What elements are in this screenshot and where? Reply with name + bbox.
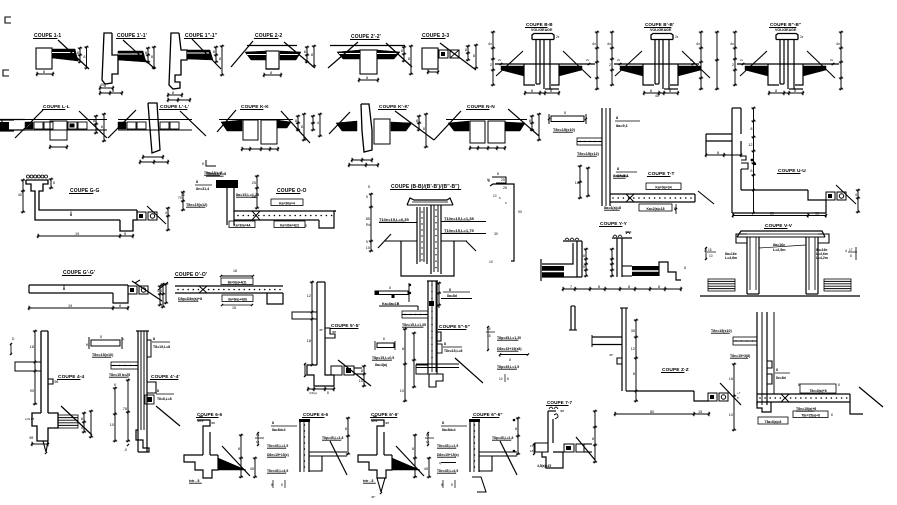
svg-text:8: 8: [794, 89, 796, 93]
svg-text:8: 8: [272, 421, 274, 425]
svg-text:85: 85: [366, 217, 370, 221]
svg-text:T8e=15(x10): T8e=15(x10): [92, 353, 114, 357]
svg-text:8: 8: [684, 266, 686, 270]
svg-text:8: 8: [531, 89, 533, 93]
svg-text:COUPE B'-B': COUPE B'-B': [645, 22, 674, 27]
svg-text:8: 8: [389, 286, 391, 290]
svg-text:8: 8: [850, 254, 852, 258]
svg-text:19: 19: [68, 304, 72, 308]
svg-text:8a=9(a)+4(2): 8a=9(a)+4(2): [228, 280, 247, 284]
svg-text:T8e=45,L=1,5: T8e=45,L=1,5: [437, 444, 458, 448]
svg-text:18: 18: [575, 181, 579, 185]
svg-text:25: 25: [252, 181, 256, 185]
svg-text:T8e=45,L=4,5: T8e=45,L=4,5: [267, 469, 288, 473]
svg-text:8: 8: [270, 71, 272, 75]
svg-text:8: 8: [412, 447, 414, 451]
svg-text:8a=8d: 8a=8d: [447, 294, 457, 298]
svg-text:8: 8: [628, 285, 630, 289]
svg-text:4: 4: [81, 426, 83, 430]
svg-text:T8p=45,L=1,8: T8p=45,L=1,8: [492, 436, 514, 440]
svg-text:Ka=2(a)=18: Ka=2(a)=18: [646, 207, 664, 211]
svg-text:8: 8: [451, 483, 453, 487]
svg-text:8: 8: [750, 127, 752, 131]
svg-text:T8e=15(a)+8: T8e=15(a)+8: [796, 407, 816, 411]
svg-text:8: 8: [151, 55, 153, 59]
svg-text:8: 8: [717, 151, 719, 155]
svg-text:Ka=30a=4(2): Ka=30a=4(2): [280, 223, 299, 227]
svg-text:40: 40: [18, 193, 22, 197]
svg-text:4: 4: [845, 249, 847, 253]
svg-text:Ka=30a=4A: Ka=30a=4A: [233, 223, 251, 227]
svg-text:tvtr - 8: tvtr - 8: [363, 479, 373, 483]
svg-text:90: 90: [30, 389, 34, 393]
svg-text:45°: 45°: [100, 83, 106, 87]
svg-text:8: 8: [444, 342, 446, 346]
svg-text:10: 10: [729, 413, 733, 417]
svg-text:4: 4: [317, 121, 319, 125]
svg-text:18: 18: [530, 449, 534, 453]
svg-text:8: 8: [465, 48, 467, 52]
svg-text:T10e=15,L=1,38: T10e=15,L=1,38: [444, 216, 474, 221]
svg-text:10: 10: [400, 389, 404, 393]
svg-text:8: 8: [77, 51, 79, 55]
svg-text:15: 15: [252, 195, 256, 199]
svg-text:8: 8: [633, 372, 635, 376]
svg-text:8: 8: [598, 285, 600, 289]
svg-text:8: 8: [304, 50, 306, 54]
svg-text:8: 8: [650, 89, 652, 93]
svg-text:8: 8: [119, 304, 121, 308]
svg-text:8a=8d=4: 8a=8d=4: [442, 428, 456, 432]
svg-text:COUPE 6"-6": COUPE 6"-6": [473, 412, 503, 417]
svg-text:10: 10: [709, 254, 713, 258]
svg-text:10: 10: [493, 194, 497, 198]
svg-text:45: 45: [250, 467, 254, 471]
svg-text:T8p=45,L=1,20: T8p=45,L=1,20: [497, 336, 521, 340]
svg-text:2: 2: [732, 63, 734, 67]
svg-text:8: 8: [442, 421, 444, 425]
svg-text:12: 12: [748, 143, 752, 147]
svg-text:8: 8: [213, 50, 215, 54]
svg-text:8: 8: [592, 437, 594, 441]
svg-text:8a=9(a)+4(8): 8a=9(a)+4(8): [228, 297, 247, 301]
svg-text:7: 7: [570, 285, 572, 289]
svg-text:8: 8: [616, 116, 618, 120]
svg-text:T8a=8(a)=8: T8a=8(a)=8: [765, 420, 782, 424]
svg-text:2x: 2x: [617, 58, 621, 62]
svg-text:18: 18: [487, 334, 491, 338]
svg-text:COUPE 7-7: COUPE 7-7: [547, 400, 572, 405]
svg-text:15: 15: [698, 410, 702, 414]
svg-text:8: 8: [81, 417, 83, 421]
svg-text:8: 8: [145, 51, 147, 55]
svg-text:2x: 2x: [830, 58, 834, 62]
svg-text:18: 18: [307, 339, 311, 343]
svg-text:VOLIGEAGE: VOLIGEAGE: [531, 28, 553, 32]
svg-text:8a=4(a): 8a=4(a): [375, 363, 387, 367]
svg-text:2x: 2x: [498, 58, 502, 62]
svg-text:8e=31,4: 8e=31,4: [196, 187, 209, 191]
svg-text:8: 8: [838, 383, 840, 387]
svg-text:8: 8: [93, 119, 95, 123]
svg-text:8: 8: [658, 285, 660, 289]
svg-text:T8p=45,L=1,8: T8p=45,L=1,8: [322, 436, 344, 440]
svg-text:45°: 45°: [609, 353, 614, 357]
svg-text:8: 8: [172, 91, 174, 95]
svg-text:8: 8: [583, 254, 585, 258]
svg-text:5: 5: [366, 195, 368, 199]
svg-text:8: 8: [281, 483, 283, 487]
svg-text:8: 8: [100, 335, 102, 339]
svg-text:8: 8: [617, 167, 619, 171]
svg-text:8: 8: [124, 232, 126, 236]
svg-text:2: 2: [609, 63, 611, 67]
svg-text:8: 8: [63, 285, 65, 289]
svg-text:8: 8: [509, 358, 511, 362]
svg-text:Φ8: Φ8: [54, 380, 59, 384]
svg-text:4: 4: [855, 193, 857, 197]
svg-text:T8e=15,L=8: T8e=15,L=8: [204, 171, 223, 175]
svg-text:8: 8: [449, 288, 451, 292]
svg-text:2x: 2x: [690, 58, 694, 62]
svg-text:D8e=15+15(x): D8e=15+15(x): [437, 453, 459, 457]
svg-text:8: 8: [361, 369, 363, 373]
svg-text:T8e=15,L=1,35: T8e=15,L=1,35: [402, 323, 426, 327]
svg-text:18: 18: [30, 345, 34, 349]
svg-text:Φ8: Φ8: [332, 330, 336, 334]
svg-text:10: 10: [366, 246, 370, 250]
svg-text:5: 5: [583, 265, 585, 269]
svg-text:8: 8: [750, 169, 752, 173]
svg-text:8a=8d=4: 8a=8d=4: [613, 174, 629, 178]
svg-text:T8e=15(x10): T8e=15(x10): [711, 329, 732, 333]
svg-text:4x: 4x: [836, 42, 840, 46]
svg-text:T8e=15+3(8): T8e=15+3(8): [730, 354, 750, 358]
svg-text:4x: 4x: [696, 42, 700, 46]
svg-text:T8p=15,L=0,5: T8p=15,L=0,5: [372, 356, 394, 360]
svg-text:Φ8Φ: Φ8Φ: [625, 230, 632, 234]
svg-text:4: 4: [77, 58, 79, 62]
svg-text:4x: 4x: [730, 42, 734, 46]
svg-text:8: 8: [408, 57, 410, 61]
svg-text:35: 35: [631, 329, 635, 333]
svg-text:COUPE B-B: COUPE B-B: [526, 22, 553, 27]
svg-text:4x: 4x: [607, 42, 611, 46]
svg-text:8: 8: [366, 76, 368, 80]
svg-text:2x: 2x: [675, 35, 679, 39]
svg-text:2x: 2x: [800, 35, 804, 39]
svg-text:8: 8: [238, 447, 240, 451]
svg-text:COUPE B"-B": COUPE B"-B": [770, 22, 801, 27]
svg-text:12: 12: [631, 347, 635, 351]
svg-text:8e=8d: 8e=8d: [776, 376, 786, 380]
svg-text:8: 8: [305, 224, 307, 228]
svg-text:T8e=45,L=4,5: T8e=45,L=4,5: [437, 469, 458, 473]
svg-text:4: 4: [165, 211, 167, 215]
svg-text:2x: 2x: [586, 58, 590, 62]
svg-text:4x: 4x: [592, 42, 596, 46]
svg-text:8: 8: [53, 181, 55, 185]
svg-text:T8e=15(x10): T8e=15(x10): [553, 128, 576, 132]
svg-text:8: 8: [112, 89, 114, 93]
svg-text:Rd: Rd: [366, 223, 370, 227]
svg-text:78: 78: [123, 407, 127, 411]
svg-text:L=4,2m: L=4,2m: [816, 256, 828, 260]
svg-text:25: 25: [501, 178, 505, 182]
svg-text:2x: 2x: [740, 58, 744, 62]
svg-text:8: 8: [515, 427, 517, 431]
svg-text:5: 5: [368, 185, 370, 189]
svg-text:8: 8: [669, 89, 671, 93]
svg-text:VOLIGEAGE: VOLIGEAGE: [650, 28, 672, 32]
svg-text:8: 8: [507, 377, 509, 381]
svg-text:T10e=15,L=1,75: T10e=15,L=1,75: [444, 228, 474, 233]
svg-text:4x: 4x: [488, 42, 492, 46]
svg-text:8: 8: [564, 111, 566, 115]
svg-text:4,5(a): 4,5(a): [309, 391, 317, 395]
svg-text:T8e=8(a)+8: T8e=8(a)+8: [809, 389, 826, 393]
svg-text:T8p=45,L=1,5: T8p=45,L=1,5: [497, 365, 519, 369]
svg-text:D8e=15+15(x8): D8e=15+15(x8): [497, 347, 522, 351]
svg-text:10: 10: [499, 377, 503, 381]
svg-text:8: 8: [70, 211, 72, 215]
svg-text:-5: -5: [124, 448, 127, 452]
svg-text:+7: +7: [737, 391, 741, 395]
svg-text:Φ8: Φ8: [211, 421, 215, 425]
svg-text:25: 25: [503, 186, 507, 190]
svg-text:L=2,5m: L=2,5m: [773, 248, 786, 252]
svg-text:8: 8: [423, 127, 425, 131]
svg-text:90: 90: [518, 210, 522, 214]
svg-text:8: 8: [776, 368, 778, 372]
svg-text:8: 8: [301, 125, 303, 129]
svg-text:8: 8: [83, 55, 85, 59]
svg-text:Φ8: Φ8: [385, 421, 389, 425]
svg-text:Ka=30a=4: Ka=30a=4: [279, 201, 295, 205]
svg-text:e=9,05: e=9,05: [25, 417, 35, 421]
svg-text:8: 8: [473, 54, 475, 58]
svg-text:T8e=15,L=8: T8e=15,L=8: [444, 349, 463, 353]
svg-text:8: 8: [383, 337, 385, 341]
svg-text:8: 8: [101, 125, 103, 129]
svg-text:Φ8: Φ8: [29, 436, 34, 440]
svg-text:2: 2: [490, 63, 492, 67]
svg-text:COUPE 6-6: COUPE 6-6: [303, 412, 328, 417]
svg-text:Ka=8a=1B: Ka=8a=1B: [382, 302, 400, 306]
svg-text:8: 8: [345, 427, 347, 431]
svg-text:8a=9,1: 8a=9,1: [616, 124, 629, 128]
svg-text:8: 8: [153, 337, 155, 341]
svg-text:8: 8: [311, 53, 313, 57]
svg-text:VOLIGEAGE: VOLIGEAGE: [775, 28, 797, 32]
svg-text:T8e=15(x12): T8e=15(x12): [186, 203, 208, 207]
svg-text:8: 8: [43, 70, 45, 74]
svg-text:8: 8: [831, 413, 833, 417]
svg-text:18: 18: [232, 306, 236, 310]
svg-text:10: 10: [359, 379, 363, 383]
svg-text:8: 8: [416, 119, 418, 123]
svg-text:L=4,6m: L=4,6m: [725, 256, 737, 260]
svg-text:10: 10: [489, 260, 493, 264]
svg-text:8: 8: [488, 179, 490, 183]
svg-text:45: 45: [424, 467, 428, 471]
svg-text:45°: 45°: [371, 495, 376, 499]
svg-text:8: 8: [550, 89, 552, 93]
svg-text:T8=15,L=8: T8=15,L=8: [153, 345, 170, 349]
svg-text:Φ8: Φ8: [560, 409, 564, 413]
svg-text:T10e=15,L=0,35: T10e=15,L=0,35: [379, 217, 409, 222]
svg-text:19: 19: [75, 232, 79, 236]
svg-text:4,5(a)=15: 4,5(a)=15: [537, 464, 551, 468]
svg-text:8: 8: [295, 119, 297, 123]
svg-text:T8e=15(a)+8: T8e=15(a)+8: [801, 413, 820, 417]
svg-text:8: 8: [219, 57, 221, 61]
svg-text:8: 8: [196, 180, 198, 184]
svg-text:4: 4: [160, 289, 162, 293]
svg-text:8: 8: [402, 347, 404, 351]
svg-text:8: 8: [157, 389, 159, 393]
svg-text:Ka=9a=34: Ka=9a=34: [655, 185, 671, 189]
svg-text:15: 15: [815, 211, 819, 215]
svg-text:15: 15: [708, 248, 712, 252]
svg-text:80: 80: [770, 211, 774, 215]
svg-text:45°: 45°: [319, 328, 324, 332]
svg-text:8: 8: [529, 119, 531, 123]
svg-text:T8e=45,L=1,5: T8e=45,L=1,5: [267, 444, 288, 448]
svg-text:18: 18: [233, 269, 237, 273]
svg-text:2x: 2x: [556, 35, 560, 39]
svg-text:T8e=15(x12): T8e=15(x12): [577, 152, 600, 156]
svg-text:5: 5: [366, 240, 368, 244]
svg-text:D8e=15+15(x): D8e=15+15(x): [267, 453, 289, 457]
svg-text:12: 12: [307, 294, 311, 298]
svg-text:30: 30: [494, 232, 498, 236]
svg-text:10: 10: [110, 423, 114, 427]
svg-text:45°: 45°: [655, 94, 661, 98]
svg-text:16: 16: [729, 377, 733, 381]
svg-text:8a=8d=4: 8a=8d=4: [272, 428, 286, 432]
svg-text:80: 80: [650, 410, 654, 414]
svg-text:8: 8: [775, 89, 777, 93]
svg-text:8a=4(a)=8: 8a=4(a)=8: [604, 206, 621, 210]
svg-text:D8p=D8e(a)+8: D8p=D8e(a)+8: [178, 297, 202, 301]
svg-text:17: 17: [849, 248, 853, 252]
svg-text:tvtr - 8: tvtr - 8: [189, 479, 199, 483]
svg-text:18: 18: [181, 193, 185, 197]
svg-text:8: 8: [497, 172, 499, 176]
svg-text:8: 8: [327, 391, 329, 395]
svg-text:8: 8: [401, 49, 403, 53]
svg-text:T8=8,L=8: T8=8,L=8: [157, 397, 172, 401]
